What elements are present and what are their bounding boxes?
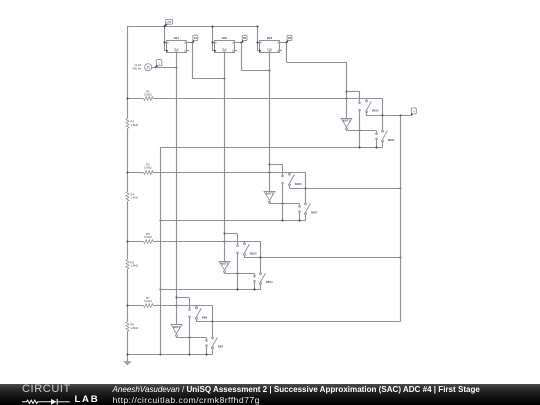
op-amp comparator NOT3 (inverter) — [219, 261, 230, 272]
wire switch control staircase stage 4 — [176, 298, 189, 309]
wire inverter output stage 1 — [347, 129, 377, 133]
svg-text:SW11: SW11 — [388, 139, 395, 142]
wire switch return row stage 1 — [160, 146, 383, 148]
wire +5V top rail — [127, 26, 258, 28]
svg-text:SW14: SW14 — [266, 281, 273, 284]
resistor R7 and wire ladder row 4 — [126, 296, 212, 322]
wire inverter output stage 4 — [176, 336, 206, 339]
svg-text:5.6kΩ: 5.6kΩ — [144, 166, 152, 170]
resistor R8 — [126, 322, 139, 332]
flip-flop BF1 — [166, 36, 189, 53]
node B3 flag — [287, 35, 292, 42]
svg-text:1.8kΩ: 1.8kΩ — [130, 196, 138, 200]
switch SW7 (lower) — [206, 322, 224, 355]
flip-flop BF2 — [214, 36, 237, 53]
wire comparator input drop stage 4 — [175, 67, 177, 325]
svg-text:1.8kΩ: 1.8kΩ — [130, 264, 138, 268]
svg-text:C: C — [158, 62, 160, 65]
wire output bus — [213, 116, 401, 322]
svg-text:NOT1: NOT1 — [343, 119, 351, 123]
svg-text:+5V: +5V — [167, 21, 172, 24]
wire return bus vertical — [160, 148, 162, 355]
svg-text:SW7: SW7 — [218, 346, 224, 349]
svg-text:CLK: CLK — [222, 48, 227, 51]
wire Q output BF3 — [280, 41, 347, 62]
svg-text:CLK: CLK — [174, 48, 179, 51]
wire left ladder rail — [127, 26, 129, 354]
svg-text:500 Hz: 500 Hz — [132, 66, 142, 70]
switch SW11 (lower) — [376, 116, 395, 148]
op-amp comparator NOT4 (inverter) — [171, 325, 182, 337]
op-amp comparator NOT1 (inverter) — [341, 119, 352, 130]
wire comparator input drop stage 1 — [345, 62, 347, 118]
node C flag (clock) — [155, 60, 161, 68]
node B1 flag — [193, 35, 198, 42]
node +5V flag — [165, 19, 173, 26]
resistor R4 — [126, 191, 139, 201]
wire D/enable feed BF2 — [211, 25, 214, 50]
wire switch return row stage 3 — [159, 288, 260, 290]
svg-text:SW17: SW17 — [311, 212, 318, 215]
wire Q output BF2 — [235, 41, 271, 71]
op-amp comparator NOT2 (inverter) — [264, 192, 275, 203]
svg-text:BF2: BF2 — [222, 36, 228, 40]
svg-text:BF1: BF1 — [174, 36, 180, 40]
switch SW10 (upper) — [359, 99, 379, 148]
wire switch control staircase stage 3 — [225, 234, 238, 245]
switch SW13 (upper) — [237, 242, 257, 290]
wire switch control staircase stage 1 — [347, 91, 360, 102]
node VOUT flag — [411, 108, 416, 116]
switch SW14 (lower) — [254, 258, 273, 290]
svg-text:5.6kΩ: 5.6kΩ — [144, 235, 152, 239]
node B2 flag — [242, 35, 247, 42]
svg-text:CLK: CLK — [267, 48, 272, 51]
wire output node stage 1 — [366, 114, 410, 116]
wire comparator input drop stage 3 — [223, 79, 225, 261]
wire D/enable feed BF3 — [256, 25, 259, 50]
wire switch control staircase stage 2 — [270, 164, 283, 175]
svg-text:SW16: SW16 — [295, 183, 302, 186]
wire D/enable feed BF1 — [163, 25, 166, 50]
svg-text:SW13: SW13 — [250, 253, 257, 256]
svg-text:BF3: BF3 — [267, 36, 273, 40]
resistor R6 — [126, 259, 139, 269]
resistor R2 — [126, 119, 139, 129]
wire clock vertical BF2 — [224, 53, 226, 79]
wire clock to BF1 — [152, 66, 178, 68]
wire output node stage 2 — [289, 187, 401, 189]
svg-text:5.6kΩ: 5.6kΩ — [144, 92, 152, 96]
switch SW16 (upper) — [282, 172, 302, 220]
wire inverter output stage 3 — [225, 272, 255, 275]
voltage source CLK1 — [132, 63, 151, 71]
svg-text:1.8kΩ: 1.8kΩ — [130, 326, 138, 330]
svg-text:1.8kΩ: 1.8kΩ — [130, 123, 138, 127]
switch SW6 (upper) — [189, 306, 208, 355]
svg-text:NOT2: NOT2 — [266, 192, 274, 196]
wire inverter output stage 2 — [270, 202, 300, 205]
resistor R3 and wire ladder row 2 — [126, 163, 305, 189]
svg-text:5.6kΩ: 5.6kΩ — [144, 299, 152, 303]
svg-text:SW10: SW10 — [372, 110, 379, 113]
wire switch return row stage 4 — [126, 353, 212, 355]
flip-flop BF3 — [259, 36, 282, 53]
wire output node stage 3 — [244, 256, 401, 258]
wire comparator input drop stage 2 — [268, 71, 270, 191]
wire switch return row stage 2 — [159, 219, 305, 221]
wire output node stage 4 — [196, 320, 400, 322]
resistor R5 and wire ladder row 3 — [126, 232, 260, 258]
svg-text:NOT4: NOT4 — [173, 325, 181, 329]
switch SW17 (lower) — [299, 188, 318, 220]
wire Q output BF1 — [187, 41, 226, 79]
wire clock vertical BF3 — [269, 53, 271, 71]
wire clock vertical BF1 — [176, 53, 178, 67]
svg-text:SW6: SW6 — [202, 316, 208, 319]
resistor R1 and wire ladder row 1 — [126, 89, 382, 115]
svg-text:NOT3: NOT3 — [221, 261, 229, 265]
ground — [123, 354, 132, 365]
